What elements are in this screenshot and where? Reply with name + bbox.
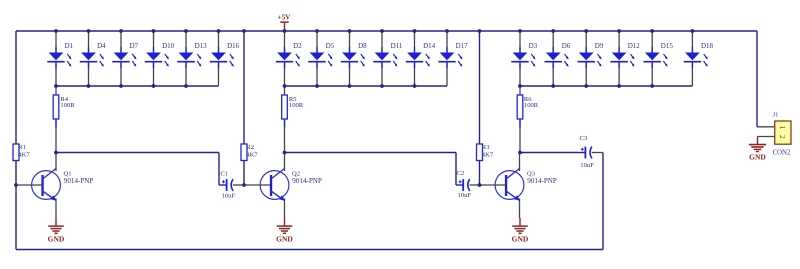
wire: right feedback vertical from C3 [602, 153, 604, 250]
resistor R1 4K7 [13, 144, 19, 161]
resistor R6 100R [517, 95, 523, 119]
svg-text:1: 1 [778, 126, 787, 130]
svg-text:100R: 100R [524, 102, 539, 109]
svg-text:R1: R1 [18, 144, 26, 151]
junction Q1 base node [14, 183, 18, 187]
wire: C3 - plate to feedback vertical [592, 152, 603, 154]
wire: R3 bottom lead to Q3 base node [479, 161, 481, 186]
junction on cathode bus x=619.1 [617, 84, 621, 88]
junction on cathode bus x=153.5 [152, 84, 156, 88]
wire: R5 top pin from cathode bus [284, 86, 286, 95]
svg-text:J1: J1 [773, 111, 779, 118]
svg-text:D4: D4 [97, 42, 106, 50]
junction on +5V rail x=479.5 [478, 29, 482, 33]
wire: R5 bottom lead to collector node [284, 119, 286, 127]
junction on +5V rail x=349.5 [348, 29, 352, 33]
wire: LED group 3 cathode bus [520, 85, 692, 87]
LED D7 [112, 32, 136, 86]
junction on +5V rail x=619.1 [617, 29, 621, 33]
LED D17 [438, 32, 462, 86]
junction on cathode bus x=349.5 [348, 84, 352, 88]
wire: bottom feedback rail [16, 249, 603, 251]
svg-text:D12: D12 [628, 42, 641, 50]
capacitor C3 10uF [581, 147, 592, 159]
svg-text:+5V: +5V [278, 14, 291, 22]
svg-text:D3: D3 [529, 42, 538, 50]
svg-text:C1: C1 [221, 171, 229, 178]
LED D18 [684, 32, 708, 86]
svg-text:10uF: 10uF [222, 193, 236, 200]
LED D16 [210, 32, 234, 86]
connector J1 CON2 body [775, 121, 791, 144]
LED D9 [578, 32, 602, 86]
wire: C2 - plate to Q3 base node [470, 184, 480, 186]
svg-text:R3: R3 [482, 144, 490, 151]
resistor R2 4K7 [241, 144, 247, 161]
svg-text:D5: D5 [326, 42, 335, 50]
junction on +5V rail x=88.5 [87, 29, 91, 33]
junction on cathode bus x=414.5 [413, 84, 417, 88]
svg-text:C2: C2 [457, 170, 465, 177]
LED D15 [644, 32, 668, 86]
svg-text:9014-PNP: 9014-PNP [292, 177, 322, 185]
resistor R4 100R [53, 95, 59, 119]
LED D8 [341, 32, 365, 86]
junction on +5V rail x=218.5 [217, 29, 221, 33]
svg-text:D16: D16 [227, 42, 240, 50]
svg-text:D13: D13 [195, 42, 208, 50]
svg-text:2: 2 [778, 135, 787, 139]
wire: +5V top rail [16, 30, 757, 32]
wire: C1 - plate to Q2 base node [233, 184, 244, 186]
svg-text:D14: D14 [423, 42, 436, 50]
svg-text:R2: R2 [246, 144, 254, 151]
junction on cathode bus x=553.2 [551, 84, 555, 88]
svg-text:D11: D11 [391, 42, 403, 50]
ground under Q2 [276, 218, 293, 244]
wire: R6 top pin from cathode bus [519, 86, 521, 95]
junction on cathode bus x=56 [54, 84, 58, 88]
connector J1 leads [757, 126, 775, 128]
junction on +5V rail x=186 [184, 29, 188, 33]
svg-text:D7: D7 [130, 42, 139, 50]
resistor R3 4K7 [477, 144, 483, 161]
svg-text:9014-PNP: 9014-PNP [64, 177, 94, 185]
junction on cathode bus x=652.2 [650, 84, 654, 88]
junction on cathode bus x=382 [380, 84, 384, 88]
svg-text:D10: D10 [162, 42, 175, 50]
LED D10 [145, 32, 169, 86]
junction on +5V rail x=520 [518, 29, 522, 33]
wire: Q2 collector run to C2 [285, 152, 457, 154]
svg-text:D17: D17 [456, 42, 469, 50]
junction on +5V rail x=692.4 [691, 29, 695, 33]
wire: R3 column from +5V rail [479, 31, 481, 144]
svg-text:4K7: 4K7 [482, 151, 494, 158]
junction on cathode bus x=586.2 [584, 84, 588, 88]
LED D2 [276, 32, 300, 86]
junction on +5V rail x=284.5 [283, 29, 287, 33]
wire: Q3 collector run to C3 [520, 152, 585, 154]
wire: LED group 1 cathode bus [56, 85, 219, 87]
junction on +5V rail x=153.5 [152, 29, 156, 33]
junction on +5V rail x=447 [445, 29, 449, 33]
svg-text:D9: D9 [595, 42, 604, 50]
svg-text:D15: D15 [661, 42, 674, 50]
transistor Q2 9014-PNP [245, 153, 289, 219]
svg-text:10uF: 10uF [580, 162, 594, 169]
svg-text:GND: GND [749, 152, 766, 161]
junction on cathode bus x=284.5 [283, 84, 287, 88]
capacitor C1 10uF [222, 179, 233, 191]
wire: R2 bottom lead to Q2 base node [243, 161, 245, 186]
junction Q2 base node [242, 183, 246, 187]
LED D6 [545, 32, 569, 86]
LED D12 [610, 32, 634, 86]
junction on cathode bus x=121 [119, 84, 123, 88]
svg-text:D8: D8 [358, 42, 367, 50]
wire: R4 bottom lead to collector node [55, 119, 57, 127]
junction on +5V rail x=414.5 [413, 29, 417, 33]
svg-text:10uF: 10uF [458, 192, 472, 199]
svg-text:4K7: 4K7 [18, 151, 30, 158]
junction on +5V rail x=382 [380, 29, 384, 33]
junction collector node [518, 151, 522, 155]
junction Q3 base node [478, 183, 482, 187]
junction collector node [54, 151, 58, 155]
junction on +5V rail x=121 [119, 29, 123, 33]
ground at connector [749, 136, 767, 161]
resistor R5 100R [282, 95, 288, 119]
transistor Q3 9014-PNP [480, 153, 524, 219]
transistor Q1 9014-PNP [16, 153, 60, 219]
junction on +5V rail x=652.2 [650, 29, 654, 33]
wire: Q1 collector run to C1 [56, 152, 219, 154]
LED D5 [308, 32, 332, 86]
junction collector node [283, 151, 287, 155]
svg-text:C3: C3 [580, 135, 588, 142]
svg-text:4K7: 4K7 [246, 151, 258, 158]
ground under Q3 [512, 218, 529, 244]
wire: LED group 2 cathode bus [285, 85, 448, 87]
svg-text:9014-PNP: 9014-PNP [527, 177, 557, 185]
LED D13 [177, 32, 201, 86]
wire: into C1 + plate [219, 184, 227, 186]
junction on +5V rail x=317 [315, 29, 319, 33]
LED D3 [511, 32, 535, 86]
wire: R2 column from +5V rail [243, 31, 245, 144]
LED D14 [406, 32, 430, 86]
svg-text:D6: D6 [562, 42, 571, 50]
wire: R6 bottom lead to collector node [519, 119, 521, 127]
ground under Q1 [48, 218, 65, 244]
junction on +5V rail x=244 [242, 29, 246, 33]
junction on cathode bus x=317 [315, 84, 319, 88]
LED D1 [47, 32, 71, 86]
svg-text:D1: D1 [65, 42, 74, 50]
LED D11 [373, 32, 397, 86]
svg-text:100R: 100R [289, 102, 304, 109]
junction on +5V rail x=56 [54, 29, 58, 33]
wire: drop to C1 [218, 153, 220, 186]
junction on cathode bus x=520 [518, 84, 522, 88]
junction on +5V rail x=553.2 [551, 29, 555, 33]
junction on +5V rail x=586.2 [584, 29, 588, 33]
svg-text:D18: D18 [701, 42, 714, 50]
junction on cathode bus x=186 [184, 84, 188, 88]
svg-text:100R: 100R [60, 102, 75, 109]
wire: R4 top pin from cathode bus [55, 86, 57, 95]
svg-text:CON2: CON2 [773, 149, 791, 156]
svg-text:D2: D2 [293, 42, 302, 50]
power +5V [278, 14, 291, 31]
wire: left vertical (R1 branch / feedback) [15, 31, 17, 250]
junction on cathode bus x=88.5 [87, 84, 91, 88]
LED D4 [80, 32, 104, 86]
wire: top-right vertical to connector J1 pin 1 [756, 31, 758, 127]
wire: into C2 + plate [456, 184, 463, 186]
capacitor C2 10uF [459, 179, 470, 191]
wire: drop to C2 [455, 153, 457, 186]
